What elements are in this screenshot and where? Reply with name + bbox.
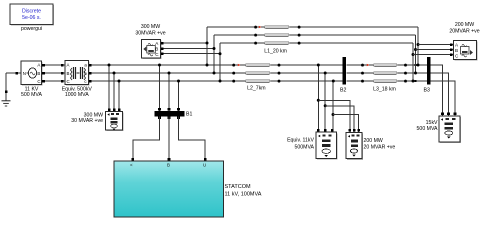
transmission line L2_7km phase a pi section bbox=[232, 64, 280, 67]
wire phase b down to bus B1 bbox=[168, 73, 170, 111]
svg-text:B: B bbox=[67, 71, 70, 76]
svg-text:N: N bbox=[23, 71, 26, 76]
wire source C to transformer C bbox=[42, 80, 66, 82]
bus B1 top port pins bbox=[158, 108, 180, 111]
transmission line L3_18 km phase c pi section bbox=[361, 80, 407, 83]
node junction tap b / load L6 branch bbox=[324, 104, 327, 107]
three-phase dynamic load L5 (300 MW 30MVAR), ports A,B,C bbox=[142, 40, 162, 60]
wire riser phase b to L1 phase 2 bbox=[213, 35, 215, 73]
node junction phase c / Equiv 11kV tap bbox=[332, 80, 335, 83]
load Equiv 11kV input port pins A,B,C bbox=[317, 129, 334, 132]
wire phase c down to bus B1 bbox=[178, 81, 180, 111]
svg-text:L3_18 km: L3_18 km bbox=[373, 87, 396, 93]
label transformer value Equiv. 500kV 1000 MVA bbox=[62, 86, 93, 98]
STATCOM input port pins A,B,C bbox=[132, 158, 207, 161]
svg-text:300 MW: 300 MW bbox=[141, 24, 160, 30]
wire tap phase a down to load Equiv 11kV bbox=[317, 65, 319, 132]
wire phase b bus: transformer b to L2 input and B2 bbox=[89, 72, 344, 74]
transmission line L3_18 km phase b pi section bbox=[361, 72, 407, 75]
wire load L5 port C to riser c bbox=[161, 53, 221, 55]
bus bar B1 bbox=[155, 111, 185, 117]
wire branch c to load L6 (200 MW) bbox=[333, 115, 359, 133]
load L8 input port pins A,B,C bbox=[441, 113, 456, 116]
svg-text:500 MVA: 500 MVA bbox=[21, 92, 42, 98]
node junction tap a / load L6 branch bbox=[317, 99, 320, 102]
node junction phase a / B1 tap bbox=[158, 64, 161, 67]
node junction L5 C / riser c bbox=[219, 52, 222, 55]
node junction riser 2 / load L7 B branch bbox=[414, 48, 417, 51]
svg-text:B: B bbox=[167, 163, 170, 168]
svg-text:B: B bbox=[37, 71, 40, 76]
svg-text:C: C bbox=[67, 79, 70, 84]
svg-text:20MVAR +ve: 20MVAR +ve bbox=[449, 29, 479, 35]
wire tap phase b down to load Equiv 11kV bbox=[324, 73, 326, 132]
wire riser L1 phase 2 down to phase b at B3 bbox=[415, 35, 417, 73]
three-phase source U1 (11 KV 500 MVA), pins N,A,B,C bbox=[21, 61, 43, 86]
wire branch b to load L6 (200 MW) bbox=[325, 106, 354, 132]
label STATCOM 11 kV, 100MVA bbox=[225, 184, 262, 198]
wire tap phase c down to load L4 bbox=[118, 81, 120, 112]
label load L7 value 200 MW 20MVAR +ve bbox=[449, 22, 479, 35]
label load L6 value 200 MW 20 MVAR +ve bbox=[364, 138, 396, 151]
wire phase a bus: transformer a to L2 input and B2 bbox=[89, 64, 344, 66]
node junction riser 3 / load L7 C branch bbox=[412, 53, 415, 56]
node junction phase c / load L4 tap bbox=[118, 80, 121, 83]
transmission line L1_20 km phase 3 pi section bbox=[254, 42, 300, 45]
wire phase b bus B2 to L3 and B3 bbox=[347, 72, 428, 74]
source output port pins A,B,C bbox=[42, 64, 45, 83]
wire L1 phase 2 run bbox=[214, 34, 416, 36]
wire L1 phase 1 run bbox=[207, 26, 418, 28]
node junction L5 A / riser a bbox=[206, 42, 209, 45]
label load L8 value 15kV 500 MVA bbox=[417, 120, 438, 132]
wire L1 phase 3 run bbox=[220, 42, 413, 44]
wire branch to load L7 port A bbox=[418, 44, 454, 46]
wire phase c bus B2 to L3 and B3 bbox=[347, 80, 428, 82]
wire branch to load L7 port B bbox=[416, 49, 454, 51]
label load value Equiv. 11kV 500MVA bbox=[287, 138, 314, 151]
node junction riser 1 / load L7 A branch bbox=[417, 43, 420, 46]
svg-text:<: < bbox=[130, 163, 133, 168]
bus B3 left port pins a,b,c bbox=[414, 64, 416, 82]
three-phase load L6 (200 MW 20 MVAR) bbox=[346, 133, 363, 160]
transmission line L1_20 km phase 2 pi section bbox=[254, 34, 300, 37]
label load L5 value 300 MW 30MVAR +ve bbox=[135, 24, 165, 37]
svg-text:30 MVAR +ve: 30 MVAR +ve bbox=[71, 118, 103, 124]
svg-text:STATCOM: STATCOM bbox=[225, 184, 251, 190]
wire tap phase b down to load L4 bbox=[113, 73, 115, 112]
port arrow at source N input bbox=[16, 72, 19, 75]
wire phase a bus B2 to L3 and B3 bbox=[347, 64, 428, 66]
node junction phase b / load L4 tap bbox=[113, 72, 116, 75]
svg-text:B: B bbox=[155, 47, 158, 52]
transmission line L2_7km phase c pi section bbox=[232, 80, 280, 83]
svg-text:Discrete: Discrete bbox=[22, 9, 41, 15]
bus bar B3 bbox=[427, 57, 431, 84]
svg-text:Equiv. 11kV: Equiv. 11kV bbox=[287, 138, 314, 144]
wire B1 phase a to STATCOM A bbox=[133, 117, 160, 162]
svg-text:500 MVA: 500 MVA bbox=[417, 126, 438, 132]
svg-text:30MVAR +ve: 30MVAR +ve bbox=[135, 31, 165, 37]
transformer input port pins A,B,C bbox=[61, 64, 64, 83]
red input arrow L3 phase a bbox=[367, 64, 370, 66]
node junction riser 2 / phase b bbox=[414, 72, 417, 75]
wire branch a to load L6 (200 MW) bbox=[318, 100, 350, 132]
wire B1 phase c to STATCOM C bbox=[179, 117, 206, 162]
wire riser phase a to L1 phase 1 bbox=[206, 27, 208, 65]
svg-text:500MVA: 500MVA bbox=[294, 145, 314, 151]
wire tap phase c down to load Equiv 11kV bbox=[332, 81, 334, 132]
svg-text:U: U bbox=[203, 163, 206, 168]
node junction riser 1 / phase a bbox=[417, 64, 420, 67]
svg-text:L1_20 km: L1_20 km bbox=[264, 49, 287, 55]
wire riser L1 phase 3 down to phase c at B3 bbox=[412, 43, 414, 81]
svg-text:B1: B1 bbox=[186, 112, 192, 118]
load L5 port pins A,B,C bbox=[161, 42, 164, 55]
transformer output port pins a,b,c bbox=[89, 64, 92, 83]
wire B1 phase b to STATCOM B bbox=[168, 117, 170, 162]
wire ground to source N input bbox=[6, 72, 21, 74]
load L4 input port pins A,B,C bbox=[108, 108, 121, 111]
svg-text:1000 MVA: 1000 MVA bbox=[65, 92, 89, 98]
wire ground riser bbox=[5, 73, 7, 92]
wire B3 phase c to load L8 port C bbox=[431, 81, 456, 116]
three-phase load Equiv. 11kV 500MVA bbox=[316, 132, 338, 160]
node junction phase a / load L4 tap bbox=[108, 64, 111, 67]
node junction L5 B / riser b bbox=[213, 47, 216, 50]
three-phase load L4 (300 MW 30 MVAR) bbox=[106, 112, 124, 132]
three-phase dynamic load L7 (200 MW 20MVAR), ports A,B,C bbox=[454, 41, 478, 61]
node junction phase c / B1 tap bbox=[177, 80, 180, 83]
svg-text:200 MW: 200 MW bbox=[364, 138, 383, 144]
node junction riser / phase b bbox=[213, 72, 216, 75]
node junction riser / phase c bbox=[219, 80, 222, 83]
svg-text:5e-06 s.: 5e-06 s. bbox=[22, 15, 41, 21]
node junction phase a / Equiv 11kV tap bbox=[317, 64, 320, 67]
wire phase c bus: transformer c to L2 input and B2 bbox=[89, 80, 344, 82]
svg-text:B3: B3 bbox=[424, 88, 430, 94]
load L7 input port pins A,B,C bbox=[450, 43, 453, 56]
svg-text:L2_7km: L2_7km bbox=[247, 86, 265, 92]
svg-text:B: B bbox=[455, 48, 458, 53]
bus B1 bottom port pins bbox=[158, 117, 180, 120]
transformer T1 (Equiv. 500kV 1000 MVA), pins A,B,C / a,b,c bbox=[65, 61, 90, 86]
powergui block bbox=[10, 4, 54, 26]
svg-text:11 kV, 100MVA: 11 kV, 100MVA bbox=[225, 192, 262, 198]
wire load L5 port B to riser b bbox=[161, 48, 215, 50]
node junction riser / phase a bbox=[206, 64, 209, 67]
svg-text:20 MVAR +ve: 20 MVAR +ve bbox=[364, 145, 396, 151]
svg-text:A: A bbox=[67, 63, 70, 68]
svg-text:powergui: powergui bbox=[21, 26, 42, 32]
label load L4 value 300 MW 30 MVAR +ve bbox=[71, 113, 103, 125]
wire load L5 port A to riser a bbox=[161, 42, 208, 44]
transmission line L3_18 km phase a pi section bbox=[361, 64, 407, 67]
wire source A to transformer A bbox=[42, 64, 66, 66]
wire riser L1 phase 1 down to phase a at B3 bbox=[417, 27, 419, 65]
node junction phase b / Equiv 11kV tap bbox=[324, 72, 327, 75]
red input arrow L2 phase a bbox=[238, 64, 241, 66]
transmission line L2_7km phase b pi section bbox=[232, 72, 280, 75]
wire source B to transformer B bbox=[42, 72, 66, 74]
node junction tap c / load L6 branch bbox=[332, 113, 335, 116]
svg-text:C: C bbox=[37, 79, 40, 84]
label source value 11 KV 500 MVA bbox=[21, 86, 42, 98]
svg-text:200 MW: 200 MW bbox=[455, 22, 474, 28]
ground symbol bbox=[2, 91, 11, 107]
node junction phase b / B1 tap bbox=[168, 72, 171, 75]
bus bar B2 bbox=[343, 57, 347, 84]
wire B3 phase b to load L8 port B bbox=[431, 73, 449, 116]
STATCOM subsystem block (11 kV, 100MVA) bbox=[114, 161, 224, 217]
load L6 input port pins A,B,C bbox=[349, 129, 360, 132]
svg-text:B2: B2 bbox=[340, 88, 346, 94]
node junction riser 3 / phase c bbox=[412, 80, 415, 83]
svg-text:A: A bbox=[37, 63, 40, 68]
wire tap phase a down to load L4 bbox=[108, 65, 110, 112]
red input arrow L1 phase 1 bbox=[259, 26, 262, 28]
wire phase a down to bus B1 bbox=[159, 65, 161, 111]
three-phase load L8 (15kV 500 MVA) bbox=[439, 116, 461, 143]
wire riser phase c to L1 phase 3 bbox=[219, 43, 221, 81]
wire B3 phase a to load L8 port A bbox=[431, 65, 443, 116]
wire branch to load L7 port C bbox=[413, 54, 454, 56]
transmission line L1_20 km phase 1 pi section bbox=[254, 26, 300, 29]
